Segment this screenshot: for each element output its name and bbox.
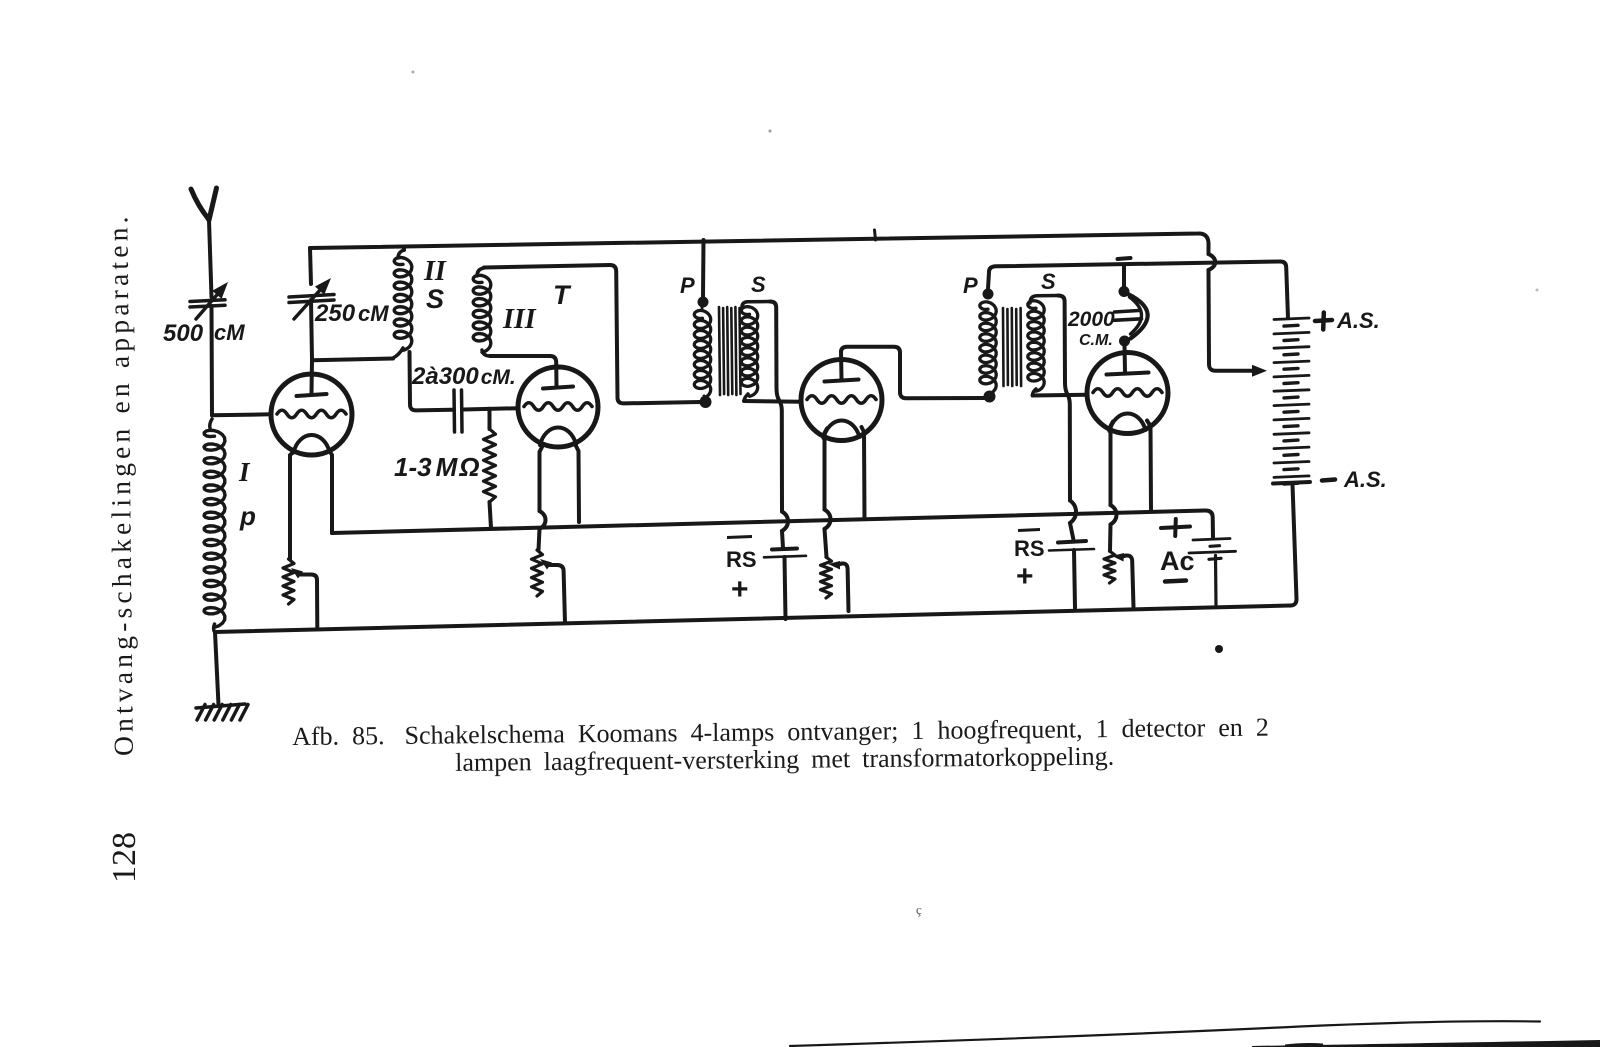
svg-text:p: p — [239, 501, 256, 531]
rheostat Rh3 — [821, 557, 832, 598]
tick mark on top rail — [875, 230, 876, 240]
label 2000 CM — [1067, 308, 1115, 349]
rheostat Rh1 wiper — [291, 568, 317, 627]
battery RS2 plates — [1049, 541, 1094, 551]
resistor R1 1-3Mohm — [484, 409, 496, 528]
transformer T2 secondary S — [1028, 296, 1058, 396]
page number 128 — [109, 823, 141, 883]
svg-text:2à300cM.: 2à300cM. — [411, 363, 516, 390]
wire T2 S top down to RS battery 2 — [1058, 296, 1076, 541]
wire antenna to node A — [210, 306, 215, 415]
svg-text:A.S.: A.S. — [1336, 308, 1380, 333]
rheostat Rh3 wiper — [828, 561, 849, 611]
label P transformer1 — [680, 273, 695, 298]
wire T1 P top to rail — [701, 240, 706, 297]
wire filament rail — [332, 510, 1213, 538]
label 500 cM — [163, 320, 245, 347]
wire ground lead — [215, 632, 219, 705]
wire Ac to bottom rail — [1214, 556, 1218, 607]
wire phones to tube V4 plate — [1123, 345, 1128, 372]
wire coil III bottom to tube V2 plate — [490, 356, 557, 386]
svg-text:+: + — [1016, 560, 1034, 593]
tube V3 filament left leg — [825, 429, 831, 558]
transformer T1 primary P — [694, 297, 710, 400]
rheostat Rh2 — [532, 550, 543, 596]
transformer T2 primary bottom dot — [984, 391, 996, 403]
wire 2000cM branch top — [1122, 265, 1126, 288]
ink dot artifact — [1215, 645, 1223, 653]
tube V1 filament left leg — [290, 452, 294, 559]
tube V1 filament right leg — [330, 451, 333, 533]
svg-text:III: III — [502, 304, 537, 335]
battery RS1 plates — [764, 549, 806, 558]
wire node B to tube V1 plate — [310, 360, 315, 393]
label 1-3Mohm — [394, 452, 480, 482]
tube V2 — [518, 367, 598, 447]
tube V4 filament right leg — [1147, 421, 1151, 510]
wire node B2 cap branch — [410, 352, 519, 410]
transformer T1 core — [719, 307, 741, 395]
wire top HT rail — [310, 233, 1252, 370]
variable capacitor C2 arrow — [294, 278, 331, 319]
label minus above phones — [1118, 258, 1131, 259]
transformer T1 primary bottom dot — [700, 396, 712, 408]
speck artifacts — [412, 71, 1539, 918]
svg-text:I: I — [238, 457, 251, 487]
transformer T1 secondary S — [741, 302, 770, 402]
tube V2 filament right leg — [576, 446, 579, 522]
svg-text:Ac: Ac — [1160, 546, 1195, 576]
svg-text:C.M.: C.M. — [1079, 332, 1113, 349]
svg-text:T: T — [553, 280, 572, 310]
tube V3 filament right leg — [862, 427, 865, 519]
wire tube V3 plate to T2 primary — [841, 347, 984, 398]
label II — [423, 256, 447, 287]
label P transformer2 — [963, 273, 978, 298]
label 250 cM — [314, 300, 389, 327]
variable capacitor C1 arrow — [196, 282, 228, 319]
wire bottom earth rail — [215, 606, 1290, 633]
rheostat Rh4 — [1104, 551, 1115, 583]
wire T1 S bottom to tube V3 grid — [744, 399, 801, 404]
label Ac — [1160, 546, 1195, 576]
wire -AS to bottom rail — [1290, 484, 1297, 606]
label 2a300cM — [411, 363, 516, 390]
phones crescent — [1128, 294, 1148, 339]
rheostat Rh2 wiper — [540, 559, 565, 623]
tube V4 — [1087, 353, 1168, 434]
rheostat Rh1 — [283, 559, 294, 604]
wire RS2 to bottom rail — [1074, 550, 1075, 608]
wire T2 S bottom to tube V4 grid — [1033, 393, 1088, 398]
label P coil1 — [239, 501, 256, 531]
wire RS1 to bottom rail — [785, 557, 786, 619]
label -A.S. — [1322, 467, 1387, 492]
coil L2 II/S — [393, 250, 412, 358]
tube V1 — [271, 374, 352, 455]
wire coil II top to rail — [402, 247, 406, 250]
label S transformer1 — [751, 272, 766, 297]
label Ac plus — [1161, 519, 1190, 536]
wire coil III top — [484, 265, 700, 403]
capacitor C4 2000cM plates — [1114, 311, 1142, 321]
svg-text:cM: cM — [214, 320, 245, 345]
svg-text:250cM: 250cM — [314, 300, 389, 327]
transformer T2 core — [1003, 308, 1021, 386]
svg-text:RS: RS — [726, 547, 757, 572]
battery Ac plates — [1189, 539, 1236, 560]
svg-text:S: S — [1041, 269, 1056, 294]
svg-text:2000: 2000 — [1067, 308, 1115, 331]
wire 250cM branch from top rail — [310, 248, 311, 284]
label III — [502, 304, 537, 335]
tube V2 filament left leg — [539, 447, 546, 550]
label I — [238, 457, 251, 487]
capacitor C3 2a300cM plates — [454, 390, 462, 432]
variable capacitor C2 plates — [289, 295, 334, 303]
left margin vertical title — [103, 196, 139, 756]
label RS1 — [726, 537, 757, 607]
page bottom blob — [1252, 1040, 1600, 1047]
node A wire to tube V1 grid — [212, 414, 272, 415]
label S coil2 — [426, 284, 444, 314]
wire node B to coil II — [312, 359, 393, 361]
svg-text:500: 500 — [163, 320, 204, 347]
transformer T2 primary P — [980, 289, 996, 395]
antenna — [191, 188, 217, 297]
caption line 2 — [455, 742, 1114, 778]
wire +A.S. supply line — [989, 261, 1288, 318]
caption line 1 — [292, 713, 1269, 752]
coil L1 I/P antenna coil — [204, 419, 225, 631]
svg-text:II: II — [423, 256, 447, 287]
coil L3 III/T reaction coil — [473, 268, 491, 356]
wire T1 S top down to RS battery — [770, 302, 788, 549]
wire T2 P top corner — [988, 272, 989, 289]
variable capacitor C1 plates — [190, 300, 225, 307]
label T — [553, 280, 572, 310]
label +A.S. — [1315, 308, 1380, 333]
battery AS high tension stack — [1273, 318, 1310, 484]
tube V4 filament left leg — [1110, 422, 1117, 552]
ground symbol — [196, 704, 248, 720]
tube V3 — [801, 360, 882, 441]
page bottom edge curve — [790, 1021, 1540, 1046]
svg-text:P: P — [680, 273, 695, 298]
wire C2 to node B — [311, 300, 312, 360]
svg-text:ç: ç — [916, 902, 922, 917]
label Ac minus — [1165, 581, 1186, 582]
label RS2 — [1014, 530, 1045, 594]
svg-text:S: S — [426, 284, 444, 314]
svg-text:A.S.: A.S. — [1343, 467, 1387, 492]
svg-text:+: + — [731, 573, 749, 606]
node dot phones bottom — [1119, 336, 1130, 347]
svg-text:RS: RS — [1014, 536, 1045, 561]
svg-text:S: S — [751, 272, 766, 297]
arrow tap into battery — [1252, 365, 1267, 377]
rheostat Rh4 wiper — [1112, 553, 1134, 607]
svg-text:1-3MΩ: 1-3MΩ — [394, 452, 480, 482]
node dot phones top — [1119, 286, 1130, 297]
label S transformer2 — [1041, 269, 1056, 294]
svg-text:P: P — [963, 273, 978, 298]
